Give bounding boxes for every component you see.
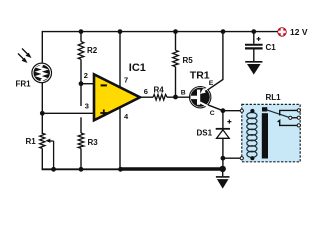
- node pin4 rail: [118, 167, 123, 172]
- ground C1: [245, 62, 262, 75]
- transistor TR1: [181, 32, 223, 118]
- node R5 top rail: [173, 29, 178, 34]
- capacitor C1: [245, 32, 276, 62]
- svg-text:IC1: IC1: [129, 62, 146, 74]
- svg-text:3: 3: [85, 101, 89, 110]
- node wiper rail: [51, 167, 56, 172]
- node junction FR1/R1/pin3: [40, 111, 45, 116]
- node pin7 top rail: [118, 29, 123, 34]
- resistor R4: [153, 86, 167, 101]
- resistor R2: [78, 32, 98, 84]
- wire left vertical lower: [41, 82, 43, 134]
- svg-text:C1: C1: [266, 43, 277, 52]
- relay armature: [262, 107, 267, 111]
- wire relay coil top link: [223, 110, 241, 112]
- power terminal 12V: [278, 27, 308, 37]
- potentiometer R1: [26, 133, 54, 169]
- ground main: [216, 169, 230, 189]
- resistor R5: [173, 32, 194, 97]
- svg-text:C: C: [210, 110, 215, 117]
- relay coil: [247, 113, 257, 158]
- node relay coil bottom junction: [221, 156, 226, 161]
- svg-text:R2: R2: [87, 46, 98, 55]
- svg-text:E: E: [209, 80, 214, 87]
- wire R2-R3 link lower: [80, 117, 82, 133]
- wire pin3 horizontal: [42, 112, 97, 114]
- svg-text:12 V: 12 V: [290, 27, 308, 37]
- relay terminals left: [240, 109, 243, 112]
- op-amp IC1: [84, 32, 148, 170]
- wire diode to lower node: [222, 138, 224, 167]
- svg-text:RL1: RL1: [266, 93, 282, 102]
- svg-text:R3: R3: [88, 138, 99, 147]
- svg-text:DS1: DS1: [197, 129, 213, 138]
- wire top rail: [42, 31, 277, 33]
- wire pin2: [81, 83, 97, 85]
- svg-text:B: B: [181, 90, 186, 97]
- svg-text:R5: R5: [183, 56, 194, 65]
- node R2 top rail: [79, 29, 84, 34]
- relay contacts: [280, 110, 299, 115]
- node C1 top rail: [251, 29, 256, 34]
- node base junction: [173, 95, 178, 100]
- svg-text:R4: R4: [154, 86, 165, 95]
- relay core: [262, 113, 268, 158]
- node R2/pin2 junction: [79, 81, 84, 86]
- wire R1 bottom lead: [41, 148, 43, 170]
- node main ground junction: [220, 166, 226, 172]
- svg-text:FR1: FR1: [16, 80, 32, 89]
- wire collector down: [222, 111, 224, 128]
- wire R2-R3 link upper: [80, 84, 82, 106]
- wire left vertical upper: [41, 31, 43, 63]
- node R3 rail: [79, 167, 84, 172]
- wire opamp output: [140, 96, 154, 98]
- svg-text:R1: R1: [26, 137, 37, 146]
- svg-text:6: 6: [144, 87, 148, 96]
- node TR1-E top rail: [221, 29, 226, 34]
- relay RL1: [240, 93, 300, 162]
- wire relay coil bottom link: [223, 157, 241, 159]
- wire thick ground rail: [121, 167, 223, 171]
- photoresistor FR1: [16, 49, 52, 89]
- wire R4 to base: [167, 96, 190, 98]
- svg-text:2: 2: [84, 71, 88, 80]
- wire bottom-left rail: [42, 168, 121, 170]
- svg-text:7: 7: [124, 76, 128, 85]
- svg-text:TR1: TR1: [190, 69, 210, 81]
- resistor R3: [78, 133, 98, 169]
- diode DS1: [197, 120, 232, 139]
- node collector junction: [221, 108, 226, 113]
